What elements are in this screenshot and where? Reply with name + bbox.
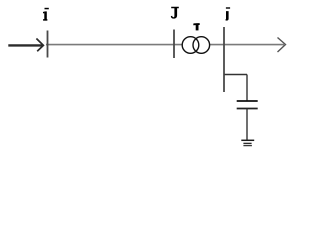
capacitor C <box>237 101 258 109</box>
node bus i <box>47 31 49 58</box>
node bus J <box>173 30 175 59</box>
node bus j <box>223 27 225 92</box>
transformer T <box>182 37 209 54</box>
wire input arrow shaft <box>8 44 43 46</box>
wire capacitor branch vertical <box>246 75 248 102</box>
wire main horizontal line i to arrow tip <box>46 44 284 46</box>
wire input arrow head <box>36 39 43 52</box>
wire output arrow head <box>278 38 286 53</box>
node label j <box>225 7 230 20</box>
wire capacitor branch horizontal <box>225 74 248 76</box>
ground <box>241 140 254 145</box>
wire capacitor to ground <box>246 109 248 141</box>
node label i <box>43 8 49 21</box>
node label J <box>171 7 179 19</box>
transformer label T <box>193 23 200 30</box>
